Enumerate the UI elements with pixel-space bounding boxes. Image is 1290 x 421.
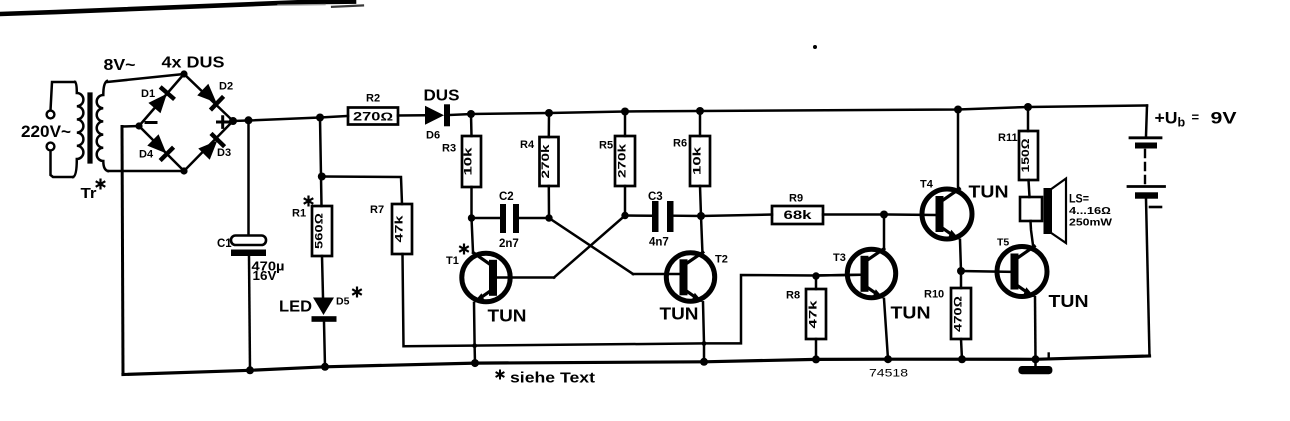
svg-text:T3: T3 [833, 252, 846, 264]
wire R7 bottom run to T3 base [403, 254, 862, 346]
terminal circle top [47, 111, 55, 119]
svg-text:560Ω: 560Ω [313, 212, 325, 249]
resistor R11 [1027, 107, 1030, 131]
capacitor C1 plus plate [231, 236, 266, 246]
resistor R6 [699, 111, 702, 136]
transformer primary winding [73, 82, 83, 177]
cross coupling C3 left to T1 base [554, 216, 625, 278]
node top AC [180, 70, 187, 77]
resistor R5 [624, 112, 627, 137]
transformer core [87, 95, 92, 161]
svg-text:R7: R7 [370, 204, 384, 216]
transistor T4 [884, 110, 972, 276]
transistor T5 [997, 246, 1047, 363]
svg-text:TUN: TUN [1049, 291, 1089, 311]
diode D2 [196, 83, 225, 112]
resistor R1 box [312, 206, 332, 256]
transistor T2 [633, 216, 715, 366]
node bottom AC [180, 167, 187, 174]
svg-text:R4: R4 [520, 139, 535, 151]
svg-text:Tr: Tr [81, 186, 97, 202]
svg-text:T5: T5 [997, 237, 1009, 249]
asterisk siehe Text [496, 370, 505, 380]
svg-text:270Ω: 270Ω [353, 112, 393, 124]
wire R1 to LED [322, 256, 323, 297]
svg-text:220V~: 220V~ [21, 122, 71, 141]
svg-text:150Ω: 150Ω [1020, 138, 1032, 173]
resistor R8 [812, 272, 819, 279]
plus sign [218, 117, 229, 128]
node R3 [467, 110, 475, 118]
svg-text:47k: 47k [393, 214, 405, 242]
page-edge scan line [0, 2, 354, 14]
svg-text:R1: R1 [292, 208, 306, 220]
battery cell 1 long plate [1130, 136, 1161, 139]
node LED ground [321, 363, 329, 371]
asterisk D5 [352, 287, 362, 298]
svg-text:16V: 16V [253, 269, 278, 283]
node R1/R7 tee [318, 173, 326, 181]
minus sign [146, 121, 156, 124]
svg-text:C3: C3 [648, 191, 663, 203]
battery wire to bottom rail [1146, 199, 1150, 356]
svg-text:74518: 74518 [869, 368, 908, 380]
wire plus node to top rail [233, 116, 348, 121]
wire D6 to rail [450, 114, 471, 115]
svg-text:4x DUS: 4x DUS [162, 55, 225, 72]
resistor R10 [960, 271, 963, 288]
node C1 ground [246, 366, 254, 374]
svg-text:R11: R11 [998, 132, 1018, 144]
node R4 [545, 109, 553, 117]
resistor R9 box [772, 206, 823, 224]
node plus [229, 117, 237, 125]
svg-text:TUN: TUN [969, 182, 1009, 202]
resistor R3 [470, 114, 473, 136]
bridge rectifier edges [139, 74, 233, 171]
transformer Tr primary terminals wire [51, 82, 76, 110]
battery cell 2 short plate [1135, 192, 1158, 198]
svg-text:+U: +U [1155, 109, 1178, 128]
svg-text:4...16Ω: 4...16Ω [1069, 206, 1111, 217]
diode D6 [425, 106, 444, 125]
svg-text:=: = [1192, 110, 1200, 125]
loudspeaker LS [1020, 197, 1042, 221]
svg-text:LED: LED [279, 299, 312, 316]
page-edge hook [332, 5, 363, 6]
node minus [135, 122, 142, 129]
node T4 base / T3 collector [880, 211, 888, 219]
wire C1 branch [247, 120, 250, 235]
terminal circle bottom [47, 143, 55, 151]
crossover dot T2 emitter [702, 341, 707, 346]
svg-text:R9: R9 [789, 193, 803, 205]
wire LED to rail [324, 322, 325, 367]
svg-text:R6: R6 [673, 138, 687, 150]
diode D4 [146, 133, 175, 162]
battery cell 1 short plate [1135, 143, 1157, 149]
wire secondary bottom to bridge bottom node [108, 170, 184, 173]
svg-text:R5: R5 [599, 140, 613, 152]
svg-text:TUN: TUN [488, 306, 527, 326]
wire R2 to D6 [398, 114, 425, 117]
node R11 [1024, 103, 1032, 111]
svg-text:68k: 68k [784, 210, 813, 222]
resistor R2 box [348, 108, 398, 125]
battery dashed link [1144, 150, 1146, 185]
battery cell 2 long plate [1128, 185, 1165, 188]
svg-text:9V: 9V [1211, 109, 1238, 128]
transistor T3 [816, 215, 896, 364]
svg-text:C1: C1 [217, 238, 232, 250]
svg-text:8V~: 8V~ [104, 57, 136, 74]
top rail [471, 106, 1147, 115]
cross coupling C2 right to T2 base [549, 218, 633, 274]
svg-text:T2: T2 [715, 254, 728, 266]
wire R9 to T4 base node [823, 213, 884, 216]
svg-text:2n7: 2n7 [499, 238, 519, 250]
svg-text:4n7: 4n7 [649, 237, 669, 249]
diode D3 [197, 132, 226, 161]
svg-text:TUN: TUN [891, 303, 931, 323]
svg-text:R10: R10 [924, 289, 944, 301]
svg-text:D1: D1 [141, 88, 155, 100]
LED D5 [313, 298, 334, 316]
resistor R7 box [392, 204, 412, 254]
node T4 collector [954, 106, 962, 114]
svg-text:LS=: LS= [1069, 194, 1089, 206]
svg-text:D6: D6 [426, 130, 440, 142]
wire bridge minus node to left vertical [122, 125, 139, 128]
diode D1 [147, 85, 176, 114]
crossover dot T1 emitter [472, 343, 477, 348]
svg-text:250mW: 250mW [1069, 218, 1113, 229]
transistor T1 [462, 218, 554, 367]
svg-text:b: b [1178, 116, 1186, 130]
svg-text:470Ω: 470Ω [952, 295, 964, 332]
svg-text:TUN: TUN [660, 304, 699, 324]
stray dot [813, 45, 817, 49]
svg-text:DUS: DUS [424, 88, 460, 105]
node R1 drop [316, 114, 324, 122]
transformer secondary winding [97, 81, 108, 171]
wire R1 branch top [320, 118, 322, 207]
svg-text:10k: 10k [463, 146, 475, 175]
capacitor C2 [472, 217, 501, 220]
wire left vertical to bottom rail [122, 127, 123, 375]
svg-text:R3: R3 [442, 143, 456, 155]
bottom rail [123, 356, 1150, 375]
svg-text:47k: 47k [807, 299, 819, 328]
svg-text:D3: D3 [217, 147, 231, 159]
node R5 [621, 108, 629, 116]
ground symbol [1034, 359, 1037, 366]
svg-text:T4: T4 [920, 179, 934, 191]
wire R9 feed from T2 collector node [701, 215, 772, 217]
svg-text:R2: R2 [366, 93, 380, 105]
asterisk R1 [304, 196, 314, 207]
svg-text:270k: 270k [616, 143, 628, 178]
resistor R4 [548, 113, 551, 137]
wire secondary top to bridge top node [107, 74, 184, 82]
node C1 drop [245, 116, 253, 124]
capacitor C1 minus plate [231, 250, 266, 257]
wire T4 emitter to T5 base [961, 270, 1011, 273]
svg-text:D5: D5 [336, 296, 350, 308]
wire R7 feed [322, 177, 402, 205]
capacitor C3 [625, 214, 652, 217]
svg-text:C2: C2 [499, 191, 514, 203]
svg-text:T1: T1 [446, 255, 459, 267]
svg-text:D4: D4 [139, 149, 154, 161]
asterisk Tr [96, 179, 106, 190]
battery minus tick [1150, 206, 1161, 209]
svg-text:10k: 10k [691, 146, 703, 175]
svg-text:D2: D2 [219, 81, 233, 93]
battery wire from top rail [1146, 106, 1147, 137]
node R6 [696, 107, 704, 115]
svg-text:siehe Text: siehe Text [510, 371, 595, 387]
svg-text:R8: R8 [786, 290, 800, 302]
wire C1 to rail [249, 256, 250, 370]
wire speaker to T5 collector [1031, 221, 1034, 249]
svg-text:270k: 270k [540, 143, 552, 178]
asterisk T1 [459, 244, 469, 255]
